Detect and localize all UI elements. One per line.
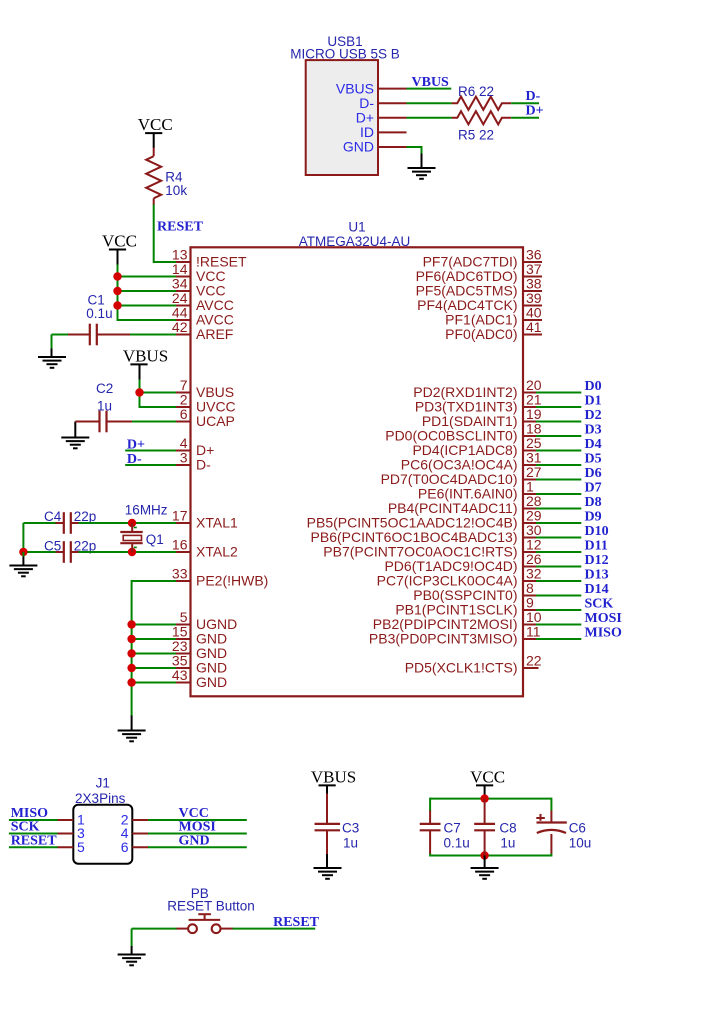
wire GND branch row 29 [132, 682, 177, 684]
wire PB left to ground [131, 929, 133, 947]
junction dot GND row 29 [127, 678, 135, 686]
wire ground to C1 [52, 334, 69, 336]
junction dot XTAL1/Q1 [128, 519, 136, 527]
U1 pin 42 AREF [176, 334, 191, 336]
svg-text:43: 43 [172, 667, 188, 683]
U1 pin 7 VBUS [176, 392, 191, 394]
svg-text:GND: GND [196, 674, 227, 690]
connector J1 2X3Pins body [73, 805, 132, 864]
U1 pin 27 PD7(T0OC4DADC10) [523, 479, 537, 481]
J1 pin 6 [132, 846, 148, 848]
svg-text:VBUS: VBUS [311, 767, 356, 786]
wire net MISO to J1 pin 1 [9, 819, 58, 821]
U1 pin 8 PB0(SSPCINT0) [523, 595, 537, 597]
U1 pin 37 PF6(ADC6TDO) [523, 276, 542, 278]
svg-text:2X3Pins: 2X3Pins [75, 791, 126, 806]
wire net D8 from pin 28 [536, 508, 581, 510]
wire R5 to net D+ [511, 117, 539, 119]
resistor R4 [146, 156, 161, 198]
svg-text:D0: D0 [585, 379, 602, 394]
svg-text:C3: C3 [342, 821, 359, 836]
svg-text:PE2(!HWB): PE2(!HWB) [196, 573, 268, 589]
wire xtal caps to ground vertical [22, 523, 24, 552]
svg-text:11: 11 [526, 624, 541, 640]
ground for U1 GND pins [131, 716, 133, 731]
svg-text:D-: D- [526, 89, 541, 104]
U1 pin 26 PD6(T1ADC9!OC4D) [523, 566, 537, 568]
U1 pin 30 PB6(PCINT6OC1BOC4BADC13) [523, 537, 537, 539]
wire C6 branch bottom [550, 834, 552, 854]
wire net RESET to J1 pin 5 [9, 846, 58, 848]
wire GND branch row 27 [132, 653, 177, 655]
wire C8 branch bottom [484, 830, 486, 855]
svg-text:D-: D- [196, 457, 211, 473]
svg-text:VBUS: VBUS [336, 80, 374, 96]
U1 pin 6 UCAP [176, 421, 191, 423]
pushbutton PB [188, 924, 197, 933]
junction dot GND row 26 [127, 635, 135, 643]
wire R6 to net D- [511, 102, 539, 104]
svg-text:16: 16 [172, 537, 188, 553]
wire GND branch row 28 [132, 667, 177, 669]
capacitor C6 polarized [537, 821, 567, 823]
U1 pin 23 GND [176, 653, 191, 655]
svg-text:C4: C4 [44, 509, 62, 524]
wire net D14 from pin 8 [536, 595, 581, 597]
wire USB D+ to R5 [407, 117, 452, 119]
wire VCC to rail [484, 786, 486, 799]
ground for VCC caps [471, 868, 499, 879]
svg-text:XTAL2: XTAL2 [196, 544, 238, 560]
svg-text:RESET: RESET [11, 834, 58, 849]
wire VBUS branch to pin 7 [140, 392, 177, 394]
U1 pin 17 XTAL1 [176, 522, 191, 524]
wire net VCC from J1 pin 2 [148, 819, 247, 821]
resistor R5 [452, 111, 512, 124]
U1 pin 32 PC7(ICP3CLK0OC4A) [523, 580, 537, 582]
svg-text:D7: D7 [585, 481, 602, 496]
wire VCC down [117, 250, 119, 266]
J1 pin 1 [57, 819, 73, 821]
svg-text:41: 41 [526, 319, 542, 335]
U1 pin 2 UVCC [176, 406, 191, 408]
svg-text:6: 6 [180, 406, 188, 422]
svg-text:U1: U1 [348, 220, 365, 235]
U1 pin 4 D+ [176, 450, 191, 452]
wire net D13 from pin 32 [536, 580, 581, 582]
svg-text:RESET Button: RESET Button [167, 898, 255, 913]
svg-text:22p: 22p [74, 509, 97, 524]
U1 pin 14 VCC [176, 276, 191, 278]
svg-text:MOSI: MOSI [179, 820, 216, 835]
svg-text:VCC: VCC [470, 767, 505, 786]
svg-text:1u: 1u [500, 835, 515, 850]
svg-text:ATMEGA32U4-AU: ATMEGA32U4-AU [299, 234, 411, 249]
wire net D10 from pin 30 [536, 537, 581, 539]
svg-text:VCC: VCC [102, 232, 137, 251]
wire XTAL2 row left [23, 551, 56, 553]
svg-text:42: 42 [172, 319, 188, 335]
svg-text:D14: D14 [585, 582, 609, 597]
svg-text:MOSI: MOSI [585, 611, 622, 626]
svg-text:0.1u: 0.1u [444, 835, 470, 850]
U1 pin 5 UGND [176, 624, 191, 626]
U1 pin 38 PF5(ADC5TMS) [523, 290, 542, 292]
U1 pin 1 PE6(INT.6AIN0) [523, 493, 537, 495]
wire VCC bus vertical [118, 265, 177, 321]
svg-text:VCC: VCC [138, 115, 173, 134]
wire net D4 from pin 25 [536, 450, 581, 452]
U1 pin 39 PF4(ADC4TCK) [523, 305, 542, 307]
J1 pin 5 [57, 846, 73, 848]
crystal Q1 [131, 523, 133, 532]
wire VCC bottom rail [430, 855, 551, 857]
svg-text:ID: ID [360, 124, 374, 140]
svg-text:J1: J1 [96, 776, 110, 791]
svg-text:VBUS: VBUS [123, 346, 168, 365]
U1 pin 41 PF0(ADC0) [523, 334, 542, 336]
svg-text:D4: D4 [585, 437, 602, 452]
svg-text:GND: GND [179, 834, 210, 849]
svg-text:C6: C6 [569, 821, 586, 836]
svg-text:XTAL1: XTAL1 [196, 515, 238, 531]
wire GND branch row 26 [132, 638, 177, 640]
wire C8 branch top [484, 799, 486, 824]
U1 pin 19 PD1(SDAINT1) [523, 421, 537, 423]
wire VCC to R4 [153, 133, 155, 148]
wire net SCK from pin 9 [536, 609, 581, 611]
J1 pin 2 [132, 819, 148, 821]
svg-text:3: 3 [180, 450, 188, 466]
svg-text:D10: D10 [585, 524, 609, 539]
wire VCC branch to pin 34 [118, 290, 177, 292]
wire net D6 from pin 27 [536, 479, 581, 481]
wire net D7 from pin 1 [536, 493, 581, 495]
junction dot xtal ground [19, 548, 27, 556]
ground for USB1 GND [421, 154, 423, 169]
wire USB GND to ground [407, 147, 422, 155]
wire net D+ to pin 4 [125, 450, 176, 452]
svg-text:Q1: Q1 [146, 532, 164, 547]
capacitor C5 [63, 541, 65, 563]
svg-text:10k: 10k [165, 183, 187, 198]
U1 pin 40 PF1(ADC1) [523, 319, 542, 321]
svg-text:PD5(XCLK1!CTS): PD5(XCLK1!CTS) [405, 660, 518, 676]
svg-text:R6 22: R6 22 [458, 84, 494, 99]
capacitor C7 [420, 823, 441, 825]
wire VCC branch to pin 24 [118, 305, 177, 307]
svg-text:6: 6 [121, 839, 129, 855]
U1 pin 25 PD4(ICP1ADC8) [523, 450, 537, 452]
svg-text:VBUS: VBUS [412, 75, 450, 90]
U1 pin 36 PF7(ADC7TDI) [523, 261, 542, 263]
wire net D2 from pin 19 [536, 421, 581, 423]
wire VBUS to C3 [326, 786, 328, 794]
wire net RESET from R4 to U1 pin 13 [154, 205, 177, 263]
junction dot GND row 25 [127, 620, 135, 628]
junction dot pin14 branch [113, 272, 121, 280]
junction dot GND row 28 [127, 664, 135, 672]
wire ground to PB [132, 928, 177, 930]
svg-text:D+: D+ [526, 104, 544, 119]
svg-text:AREF: AREF [196, 326, 233, 342]
wire net MOSI from J1 pin 4 [148, 833, 247, 835]
U1 pin 18 PD0(OC0BSCLINT0) [523, 435, 537, 437]
svg-text:0.1u: 0.1u [86, 306, 112, 321]
junction dot pin34 branch [113, 287, 121, 295]
svg-text:D9: D9 [585, 510, 602, 525]
U1 pin 44 AVCC [176, 319, 191, 321]
wire GND branch row 25 [132, 624, 177, 626]
svg-text:D11: D11 [585, 539, 608, 554]
U1 pin 16 XTAL2 [176, 551, 191, 553]
ground for C3 [314, 868, 342, 879]
svg-text:D3: D3 [585, 423, 602, 438]
U1 pin 34 VCC [176, 290, 191, 292]
resistor R6 [452, 97, 512, 110]
U1 pin 35 GND [176, 667, 191, 669]
wire VBUS down [139, 364, 141, 380]
wire net D11 from pin 12 [536, 551, 581, 553]
svg-text:C8: C8 [499, 821, 516, 836]
J1 pin 3 [57, 833, 73, 835]
wire VBUS bus vertical [140, 380, 177, 408]
U1 pin 29 PB5(PCINT5OC1AADC12!OC4B) [523, 522, 537, 524]
U1 pin 21 PD3(TXD1INT3) [523, 406, 537, 408]
wire net SCK to J1 pin 3 [9, 833, 58, 835]
svg-text:1u: 1u [343, 835, 358, 850]
wire net D3 from pin 18 [536, 435, 581, 437]
wire VCC branch to pin 14 [118, 276, 177, 278]
wire PE2 to ground bus [132, 581, 177, 625]
svg-text:PF0(ADC0): PF0(ADC0) [445, 326, 517, 342]
ground for C2 [74, 422, 76, 438]
svg-text:RESET: RESET [157, 219, 204, 234]
svg-text:D2: D2 [585, 408, 602, 423]
svg-text:D1: D1 [585, 394, 602, 409]
junction dot VCC rail top [480, 794, 488, 802]
wire net D- to pin 3 [125, 464, 176, 466]
wire net MISO from pin 11 [536, 638, 581, 640]
capacitor C8 [474, 823, 495, 825]
wire XTAL1 row left [23, 522, 56, 524]
U1 pin 3 D- [176, 464, 191, 466]
junction dot XTAL2/Q1 [128, 548, 136, 556]
svg-text:R5 22: R5 22 [458, 128, 494, 143]
U1 pin 22 PD5(XCLK1!CTS) [523, 667, 539, 669]
svg-text:D13: D13 [585, 568, 609, 583]
svg-text:16MHz: 16MHz [125, 503, 168, 518]
wire bottom rail to ground [484, 856, 486, 869]
junction dot rail bottom [480, 851, 488, 859]
junction dot pin24 branch [113, 301, 121, 309]
svg-text:D-: D- [359, 95, 374, 111]
wire C3 to ground [326, 830, 328, 854]
U1 pin 28 PB4(PCINT4ADC11) [523, 508, 537, 510]
U1 pin 13 !RESET [176, 261, 191, 263]
ground for xtal caps [22, 557, 24, 566]
U1 pin 9 PB1(PCINT1SCLK) [523, 609, 537, 611]
wire net D9 from pin 29 [536, 522, 581, 524]
J1 pin 4 [132, 833, 148, 835]
wire C2 to U1 UCAP pin 6 [107, 421, 133, 423]
svg-text:10u: 10u [569, 835, 592, 850]
U1 pin 31 PC6(OC3A!OC4A) [523, 464, 537, 466]
wire down to ground (AREF) [51, 335, 53, 350]
wire C6 branch top [550, 798, 552, 811]
U1 pin 10 PB2(PDIPCINT2MOSI) [523, 624, 537, 626]
svg-text:GND: GND [343, 139, 374, 155]
svg-text:5: 5 [77, 839, 85, 855]
wire ground to C2 [75, 421, 99, 423]
capacitor C2 [98, 411, 100, 433]
svg-text:UCAP: UCAP [196, 413, 235, 429]
junction dot GND row 27 [127, 649, 135, 657]
svg-text:D6: D6 [585, 466, 602, 481]
wire C5 to U1 XTAL2 pin 16 [71, 551, 79, 553]
wire tick near Q1 top [134, 527, 137, 529]
U1 pin 12 PB7(PCINT7OC0AOC1C!RTS) [523, 551, 537, 553]
U1 pin 20 PD2(RXD1INT2) [523, 392, 537, 394]
svg-text:D12: D12 [585, 553, 609, 568]
wire C7 branch top [429, 798, 431, 811]
svg-text:RESET: RESET [273, 915, 320, 930]
U1 pin 15 GND [176, 638, 191, 640]
svg-text:PB3(PD0PCINT3MISO): PB3(PD0PCINT3MISO) [369, 631, 518, 647]
wire net MOSI from pin 10 [536, 624, 581, 626]
svg-text:D5: D5 [585, 452, 602, 467]
svg-text:MISO: MISO [585, 626, 622, 641]
svg-text:D8: D8 [585, 495, 602, 510]
plus sign C6 [536, 817, 545, 819]
wire net D12 from pin 26 [536, 566, 581, 568]
wire net D0 from pin 20 [536, 392, 581, 394]
U1 pin 11 PB3(PD0PCINT3MISO) [523, 638, 537, 640]
U1 pin 24 AVCC [176, 305, 191, 307]
svg-text:D+: D+ [356, 110, 374, 126]
connector USB1 MICRO USB 5S B body [306, 60, 378, 175]
wire net D5 from pin 31 [536, 464, 581, 466]
capacitor C3 [315, 823, 341, 825]
svg-text:C2: C2 [96, 381, 113, 396]
wire net D1 from pin 21 [536, 406, 581, 408]
capacitor C4 [63, 512, 65, 534]
svg-text:22: 22 [526, 653, 542, 669]
capacitor C1 [89, 324, 91, 346]
IC U1 ATMEGA32U4-AU body [191, 247, 524, 696]
wire VCC top rail [430, 798, 551, 800]
wire C7 branch bottom [429, 830, 431, 854]
ground for PB [118, 955, 146, 966]
wire net GND from J1 pin 6 [148, 846, 247, 848]
svg-text:17: 17 [172, 508, 188, 524]
svg-text:33: 33 [172, 566, 188, 582]
svg-text:C7: C7 [444, 821, 461, 836]
wire ground bus vertical [131, 625, 133, 717]
wire tick near Q1 bottom [134, 546, 137, 548]
junction dot pin7 branch [135, 388, 143, 396]
wire C1 to U1 AREF pin 42 [97, 334, 130, 336]
wire net VBUS from USB1 [407, 88, 452, 90]
svg-text:SCK: SCK [11, 820, 40, 835]
wire R4 lead [153, 198, 155, 205]
wire C4 to U1 XTAL1 pin 17 [71, 522, 79, 524]
svg-text:SCK: SCK [585, 597, 614, 612]
wire USB D- to R6 [407, 102, 452, 104]
U1 pin 33 PE2(!HWB) [176, 580, 191, 582]
ground for C1 [51, 349, 53, 358]
svg-text:MICRO USB 5S B: MICRO USB 5S B [290, 47, 400, 62]
wire PB to net RESET [220, 928, 233, 930]
U1 pin 43 GND [176, 682, 191, 684]
